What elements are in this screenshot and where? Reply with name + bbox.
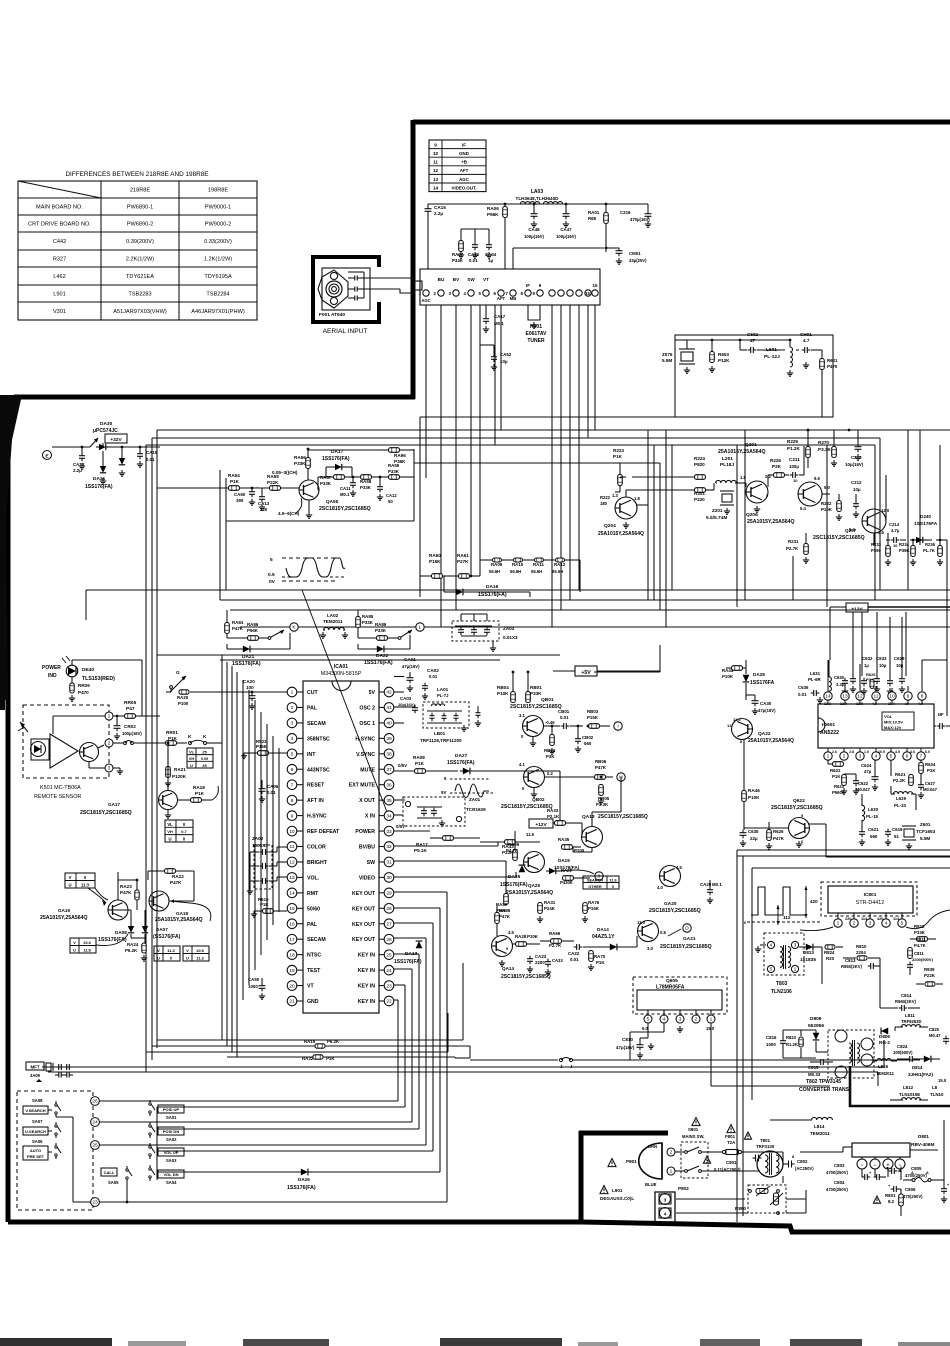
svg-text:CRT DRIVE BOARD NO.: CRT DRIVE BOARD NO. xyxy=(28,222,91,228)
svg-text:Q622: Q622 xyxy=(793,798,805,804)
resistor RB05 P3.3K xyxy=(599,785,604,796)
svg-text:1SS176(FA): 1SS176(FA) xyxy=(85,484,113,490)
svg-text:P1.2K: P1.2K xyxy=(787,446,800,451)
svg-text:V: V xyxy=(73,940,76,945)
svg-text:M0.047: M0.047 xyxy=(923,787,938,792)
svg-text:R626: R626 xyxy=(773,829,784,834)
svg-text:26: 26 xyxy=(386,937,392,943)
resistor RA96 P36K xyxy=(389,448,400,453)
cap C810 47u xyxy=(637,1044,644,1046)
resistor RR01 P1K xyxy=(166,741,177,746)
resistor R622 P1K xyxy=(833,762,844,767)
svg-text:VOL: VOL xyxy=(884,714,893,719)
svg-text:KEY IN: KEY IN xyxy=(358,968,375,974)
svg-text:ICA01: ICA01 xyxy=(334,664,348,670)
svg-text:9: 9 xyxy=(291,813,294,819)
scan artifact smudges bottom edge xyxy=(0,1338,112,1346)
cap CR02 100u xyxy=(114,725,121,727)
svg-text:C635: C635 xyxy=(748,829,759,834)
resistor RA55 P22K xyxy=(270,486,281,491)
svg-text:5: 5 xyxy=(890,754,893,760)
svg-text:1: 1 xyxy=(670,1169,673,1175)
svg-text:8.2: 8.2 xyxy=(888,1199,895,1204)
transistor QA13 xyxy=(582,827,603,848)
svg-text:-0.46: -0.46 xyxy=(545,720,555,725)
svg-text:0.2: 0.2 xyxy=(547,771,553,776)
svg-text:P47K: P47K xyxy=(595,765,607,770)
svg-text:0.05: 0.05 xyxy=(201,757,208,761)
svg-text:0.01: 0.01 xyxy=(560,715,569,720)
svg-text:10.5: 10.5 xyxy=(878,750,885,754)
svg-text:C216: C216 xyxy=(620,210,631,215)
svg-text:L: L xyxy=(419,625,422,631)
svg-text:10μ: 10μ xyxy=(853,487,861,492)
switch SA05 CALL xyxy=(101,1168,117,1176)
transistor Q622 xyxy=(789,818,810,839)
svg-text:TCR1629: TCR1629 xyxy=(466,807,486,812)
remote sensor photodiode xyxy=(31,739,49,760)
svg-text:1SS176(FA): 1SS176(FA) xyxy=(500,882,528,888)
resistor R223 P1K xyxy=(618,475,623,486)
svg-text:2.8: 2.8 xyxy=(849,750,854,754)
svg-text:QA22: QA22 xyxy=(758,731,771,737)
svg-text:2SC1815Y,2SC1685Q: 2SC1815Y,2SC1685Q xyxy=(649,908,701,914)
svg-text:RA35: RA35 xyxy=(558,837,570,842)
svg-text:CA23: CA23 xyxy=(535,954,547,959)
svg-text:ZA01: ZA01 xyxy=(469,797,481,802)
circle 26 xyxy=(91,1097,100,1106)
svg-text:PRE SET: PRE SET xyxy=(27,1154,45,1159)
svg-text:V: V xyxy=(186,948,189,953)
cap CB02 560 xyxy=(575,738,581,740)
svg-text:H.SYNC: H.SYNC xyxy=(307,814,327,820)
svg-text:R603: R603 xyxy=(718,352,729,357)
tuner H001 box xyxy=(420,269,600,305)
svg-text:1: 1 xyxy=(108,714,111,720)
AN5222 top pins xyxy=(824,692,832,700)
svg-text:RA31: RA31 xyxy=(544,900,556,905)
svg-text:D806: D806 xyxy=(879,1034,890,1039)
svg-text:TRF1128,TRF11200: TRF1128,TRF11200 xyxy=(420,738,462,743)
svg-text:11.6: 11.6 xyxy=(526,832,535,837)
svg-text:V301: V301 xyxy=(53,309,66,315)
fusible link right xyxy=(903,1179,912,1181)
plus32V label xyxy=(105,434,127,443)
svg-text:2SC1815Y,2SC1685Q: 2SC1815Y,2SC1685Q xyxy=(80,810,132,816)
aerial input thick box xyxy=(313,257,379,322)
svg-text:10μ(16V): 10μ(16V) xyxy=(845,462,864,467)
svg-text:470(250V): 470(250V) xyxy=(903,1194,923,1199)
svg-text:P47K: P47K xyxy=(499,914,511,919)
svg-text:DA22: DA22 xyxy=(376,653,389,659)
power area wires xyxy=(821,947,823,984)
cap CA48 100u xyxy=(531,213,538,215)
svg-text:R224: R224 xyxy=(694,456,705,461)
svg-text:1SS176(FA): 1SS176(FA) xyxy=(322,456,350,462)
cap CA29 M0.1 xyxy=(707,889,713,891)
wire QB02 base xyxy=(394,776,523,778)
svg-text:IF: IF xyxy=(526,283,530,288)
svg-text:1SS176(FA): 1SS176(FA) xyxy=(394,959,422,965)
resistor RA23 P47K xyxy=(135,890,139,900)
svg-text:C825: C825 xyxy=(929,1027,940,1032)
tuner pin8-9 loop xyxy=(528,305,540,320)
svg-text:0.39(200V): 0.39(200V) xyxy=(126,239,154,245)
svg-text:V.SEARCH: V.SEARCH xyxy=(25,1108,45,1113)
svg-text:DE40: DE40 xyxy=(82,667,94,673)
ZA03 dashed network xyxy=(452,621,499,641)
svg-text:C636: C636 xyxy=(798,685,809,690)
svg-text:47μ: 47μ xyxy=(864,769,872,774)
svg-text:40: 40 xyxy=(386,721,392,727)
svg-text:25: 25 xyxy=(386,952,392,958)
svg-text:2: 2 xyxy=(853,921,856,927)
svg-text:RBV-406M: RBV-406M xyxy=(911,1142,934,1148)
svg-text:OSC 2: OSC 2 xyxy=(359,705,375,711)
svg-text:55.6H: 55.6H xyxy=(531,569,542,574)
svg-text:QA13: QA13 xyxy=(582,814,595,820)
resistor R824 R20 xyxy=(825,945,835,949)
switch SA01 POSI UP xyxy=(149,1103,151,1105)
tuner pin vertical drops xyxy=(425,305,427,478)
svg-text:RA18: RA18 xyxy=(193,785,205,790)
svg-text:R68: R68 xyxy=(588,216,597,221)
transistor QA22 xyxy=(732,719,753,740)
cap CA30 47u xyxy=(752,700,759,702)
svg-text:RA85: RA85 xyxy=(362,614,374,619)
svg-text:REMOTE SENSOR: REMOTE SENSOR xyxy=(34,794,81,800)
svg-text:GND: GND xyxy=(307,999,319,1005)
osc wires xyxy=(394,722,404,724)
svg-text:L901: L901 xyxy=(53,292,65,298)
svg-text:1: 1 xyxy=(794,967,797,973)
diode DA13 xyxy=(416,941,423,948)
svg-text:RA96: RA96 xyxy=(394,453,406,458)
svg-text:RA08: RA08 xyxy=(413,755,425,760)
svg-text:1SS176FA: 1SS176FA xyxy=(914,521,938,527)
svg-text:3JH61(FA2): 3JH61(FA2) xyxy=(908,1072,933,1077)
svg-text:100: 100 xyxy=(246,685,254,690)
svg-text:−: − xyxy=(874,1163,877,1168)
svg-text:RA80: RA80 xyxy=(496,902,508,907)
transistor Q201 xyxy=(746,481,768,503)
svg-text:C211: C211 xyxy=(789,457,800,462)
diode DA19 xyxy=(549,868,556,874)
svg-text:R270: R270 xyxy=(818,440,829,445)
cap CA22 0.01 xyxy=(576,944,578,950)
svg-text:25A1015Y,25A564Q: 25A1015Y,25A564Q xyxy=(155,917,203,923)
svg-text:VL: VL xyxy=(189,750,195,755)
IF amp wires xyxy=(157,487,228,489)
Q605 dashed box xyxy=(633,977,727,1014)
svg-text:P33K: P33K xyxy=(914,930,926,935)
svg-text:TRF9253D: TRF9253D xyxy=(901,1019,921,1024)
cap CA23 2200 v xyxy=(527,958,533,960)
resistor RB01 P33K xyxy=(526,692,531,703)
svg-text:C815: C815 xyxy=(808,1065,819,1070)
svg-text:DA07: DA07 xyxy=(156,927,168,932)
svg-text:K501 MC-TB06A: K501 MC-TB06A xyxy=(40,785,81,791)
svg-text:29: 29 xyxy=(386,891,392,897)
RA20 P100 xyxy=(179,690,189,694)
svg-text:12: 12 xyxy=(433,168,439,173)
mains wires xyxy=(675,1151,681,1153)
svg-text:L814: L814 xyxy=(814,1124,825,1129)
svg-text:0.7: 0.7 xyxy=(181,829,187,834)
svg-text:25A1015Y,25A564Q: 25A1015Y,25A564Q xyxy=(718,449,766,455)
svg-text:25A1015Y,25A564Q: 25A1015Y,25A564Q xyxy=(598,531,644,537)
svg-text:11.3: 11.3 xyxy=(196,956,204,961)
svg-text:SA08: SA08 xyxy=(32,1098,43,1103)
SEARCH OTHER table xyxy=(583,876,619,889)
svg-text:E061TAV: E061TAV xyxy=(526,331,548,337)
svg-text:TSB2284: TSB2284 xyxy=(206,292,229,298)
svg-text:5: 5 xyxy=(270,557,273,563)
svg-text:P24K: P24K xyxy=(544,906,556,911)
svg-text:V.SYNC: V.SYNC xyxy=(356,752,375,758)
circle 24 xyxy=(91,1118,100,1127)
svg-text:BLUE: BLUE xyxy=(645,1182,657,1187)
svg-text:P820: P820 xyxy=(694,462,705,467)
resistor R224 P820 xyxy=(695,475,706,480)
svg-text:2200: 2200 xyxy=(535,960,545,965)
svg-text:IF: IF xyxy=(462,142,466,147)
transistor QB01 xyxy=(523,716,544,737)
svg-text:AGC: AGC xyxy=(459,177,470,182)
svg-text:MUTE: MUTE xyxy=(360,767,375,773)
svg-text:POSI UP: POSI UP xyxy=(163,1107,180,1112)
svg-text:358NTSC: 358NTSC xyxy=(307,736,330,742)
svg-text:P4.7K: P4.7K xyxy=(914,943,926,948)
svg-text:U.SEARCH: U.SEARCH xyxy=(25,1129,46,1134)
svg-text:T803: T803 xyxy=(776,981,788,987)
svg-text:Z601: Z601 xyxy=(920,822,931,827)
svg-text:DA27: DA27 xyxy=(455,753,468,759)
svg-text:12: 12 xyxy=(857,694,863,700)
sound area box xyxy=(675,335,833,417)
diode D814 3JH61 xyxy=(924,1056,931,1063)
svg-text:(SS176(FA): (SS176(FA) xyxy=(153,934,181,940)
resistor RA76 P15K xyxy=(583,903,588,914)
svg-text:10: 10 xyxy=(893,543,898,548)
svg-text:19: 19 xyxy=(289,968,295,974)
VOL MIX table xyxy=(882,712,914,730)
svg-text:MAINS SW.: MAINS SW. xyxy=(682,1134,704,1139)
svg-text:GA21: GA21 xyxy=(683,936,696,942)
MFT caps xyxy=(58,1064,60,1070)
svg-text:RA56: RA56 xyxy=(294,455,306,460)
svg-text:H.SYNC: H.SYNC xyxy=(355,736,375,742)
diode D813 xyxy=(806,944,813,951)
svg-text:8: 8 xyxy=(291,798,294,804)
svg-text:F001 AT940: F001 AT940 xyxy=(319,312,345,318)
svg-text:P5.1K: P5.1K xyxy=(414,848,427,853)
switch to K circle xyxy=(271,630,284,637)
svg-text:C602: C602 xyxy=(747,332,758,337)
bus verticals mid-right xyxy=(647,340,649,505)
AN5222 bottom pins xyxy=(824,752,832,760)
svg-text:2SC1815Y,2SC1685Q: 2SC1815Y,2SC1685Q xyxy=(660,944,712,950)
thick secondary wire xyxy=(850,1066,950,1106)
pin30-32 wires xyxy=(394,876,516,878)
svg-text:SA06: SA06 xyxy=(32,1139,43,1144)
svg-text:0.01: 0.01 xyxy=(146,457,155,462)
svg-text:P2.2K: P2.2K xyxy=(893,778,906,783)
cap C619 51 xyxy=(885,831,891,833)
resistor RA08 P1K xyxy=(415,769,426,774)
svg-text:DA14: DA14 xyxy=(597,927,609,932)
cap CA47 100u xyxy=(563,213,570,215)
transformer T802 converter xyxy=(828,1030,874,1078)
resistor R621 P2.2K xyxy=(909,775,914,786)
Q605 pins xyxy=(644,1015,652,1023)
resistor RA26 P4.7K xyxy=(513,850,518,861)
svg-text:10: 10 xyxy=(793,478,798,483)
svg-text:C623: C623 xyxy=(858,781,869,786)
svg-text:CA12: CA12 xyxy=(386,493,397,498)
svg-text:50: 50 xyxy=(388,499,393,504)
resistor RA01 R68 xyxy=(604,213,609,224)
svg-text:RA09: RA09 xyxy=(491,562,503,567)
svg-text:P47: P47 xyxy=(126,706,135,712)
svg-text:560: 560 xyxy=(584,741,592,746)
svg-text:SA03: SA03 xyxy=(166,1158,177,1163)
svg-text:C810: C810 xyxy=(622,1037,633,1042)
svg-text:AERIAL INPUT: AERIAL INPUT xyxy=(323,328,368,335)
cap CA52 10u xyxy=(491,356,497,358)
svg-text:3: 3 xyxy=(869,921,872,927)
svg-text:31: 31 xyxy=(386,860,392,866)
svg-text:CA17: CA17 xyxy=(494,314,506,319)
svg-text:0.11(AC250V): 0.11(AC250V) xyxy=(714,1167,741,1172)
svg-text:22μ: 22μ xyxy=(750,836,758,841)
svg-text:11.0: 11.0 xyxy=(637,920,646,925)
svg-text:P33K: P33K xyxy=(362,620,374,625)
svg-text:TLN10: TLN10 xyxy=(930,1092,944,1097)
svg-text:GA18: GA18 xyxy=(176,911,188,916)
svg-text:1: 1 xyxy=(837,921,840,927)
svg-text:34: 34 xyxy=(386,813,392,819)
left mid wires xyxy=(117,880,119,900)
svg-text:TEM2011: TEM2011 xyxy=(810,1131,830,1136)
svg-text:11: 11 xyxy=(433,160,438,165)
svg-text:2SC1815Y,2SC1685Q: 2SC1815Y,2SC1685Q xyxy=(510,704,562,710)
diode DA16 xyxy=(456,589,463,596)
+12V label box xyxy=(529,819,553,828)
svg-text:MAX:12V: MAX:12V xyxy=(884,725,902,730)
value table V10.6b xyxy=(183,946,209,961)
ceramic Z201 xyxy=(722,494,732,502)
svg-text:+12V: +12V xyxy=(851,607,863,613)
svg-text:U: U xyxy=(186,956,189,961)
svg-text:GA19: GA19 xyxy=(58,908,70,913)
resistor R523 P15K xyxy=(258,751,269,756)
svg-text:RB05: RB05 xyxy=(598,796,610,801)
svg-text:P1K: P1K xyxy=(168,736,178,741)
resistor RA22 P47K xyxy=(165,869,176,874)
svg-text:C624: C624 xyxy=(861,763,872,768)
svg-text:33μ(25V): 33μ(25V) xyxy=(629,258,647,263)
svg-text:RA06: RA06 xyxy=(487,206,499,211)
circle H xyxy=(617,773,625,781)
svg-text:BV/BU: BV/BU xyxy=(359,845,375,851)
svg-text:11.8: 11.8 xyxy=(83,948,91,953)
svg-text:25A1015Y,25A564Q: 25A1015Y,25A564Q xyxy=(40,915,88,921)
svg-text:PW6890-2: PW6890-2 xyxy=(127,222,153,228)
svg-text:L901: L901 xyxy=(612,1188,623,1193)
svg-text:4.1: 4.1 xyxy=(519,762,525,767)
svg-text:OSC 1: OSC 1 xyxy=(359,721,375,727)
svg-text:0.01: 0.01 xyxy=(798,692,807,697)
svg-text:C442: C442 xyxy=(53,239,66,245)
svg-text:P1K: P1K xyxy=(613,454,623,459)
long pointer line from waveform to IC xyxy=(302,590,387,812)
svg-text:0.01: 0.01 xyxy=(570,957,579,962)
svg-text:2: 2 xyxy=(670,1150,673,1156)
diode DA27 xyxy=(463,768,470,775)
svg-text:INT: INT xyxy=(307,752,316,758)
svg-text:LA01: LA01 xyxy=(437,687,449,692)
svg-text:2: 2 xyxy=(843,754,846,760)
svg-text:RR05: RR05 xyxy=(124,700,137,706)
cap CA50 1000 xyxy=(259,985,266,987)
svg-text:RA44: RA44 xyxy=(722,668,734,673)
svg-text:198R8E: 198R8E xyxy=(208,188,228,194)
resistor RA28 P10K xyxy=(516,942,527,947)
svg-text:GA20: GA20 xyxy=(664,901,677,907)
svg-text:P100: P100 xyxy=(178,701,189,706)
svg-text:R824: R824 xyxy=(824,950,835,955)
svg-text:D813: D813 xyxy=(803,950,814,955)
resistor RA35 P100 xyxy=(562,845,573,850)
svg-text:50/60: 50/60 xyxy=(307,906,320,912)
svg-text:RA32: RA32 xyxy=(302,1056,314,1061)
svg-text:RR01: RR01 xyxy=(166,730,178,735)
resistor RA29 P430K xyxy=(563,876,574,881)
svg-text:R839: R839 xyxy=(924,967,935,972)
IC top feed wires xyxy=(157,654,560,656)
svg-text:12: 12 xyxy=(727,723,732,728)
svg-text:Q201: Q201 xyxy=(745,442,757,448)
svg-text:112: 112 xyxy=(783,915,791,920)
svg-text:I: I xyxy=(617,724,618,730)
svg-text:1: 1 xyxy=(291,690,294,696)
bus wires second nest xyxy=(86,478,226,590)
svg-text:CA11: CA11 xyxy=(340,486,351,491)
svg-text:180: 180 xyxy=(600,501,608,506)
svg-text:2.2μ: 2.2μ xyxy=(434,211,443,216)
svg-text:RESET: RESET xyxy=(307,783,325,789)
svg-text:TEM2011: TEM2011 xyxy=(876,1071,895,1076)
svg-text:RMT: RMT xyxy=(307,891,319,897)
remote sensor amp triangle xyxy=(50,734,78,768)
svg-text:P36K: P36K xyxy=(394,459,406,464)
svg-text:RB04: RB04 xyxy=(497,685,509,690)
svg-text:5.5M: 5.5M xyxy=(920,836,930,841)
value table V10.6 xyxy=(70,938,96,953)
svg-text:25: 25 xyxy=(202,763,207,768)
svg-text:23: 23 xyxy=(386,983,392,989)
wires near +32V xyxy=(52,446,90,448)
svg-text:ZA02: ZA02 xyxy=(252,836,264,841)
svg-text:S801: S801 xyxy=(688,1127,699,1132)
svg-text:1SS176(FA): 1SS176(FA) xyxy=(232,661,261,667)
svg-text:11: 11 xyxy=(874,694,879,700)
svg-text:9.6: 9.6 xyxy=(814,476,820,481)
waveform square pulses xyxy=(751,887,806,915)
resistor RB04 P10K xyxy=(511,692,516,703)
svg-text:+12V: +12V xyxy=(535,822,547,828)
